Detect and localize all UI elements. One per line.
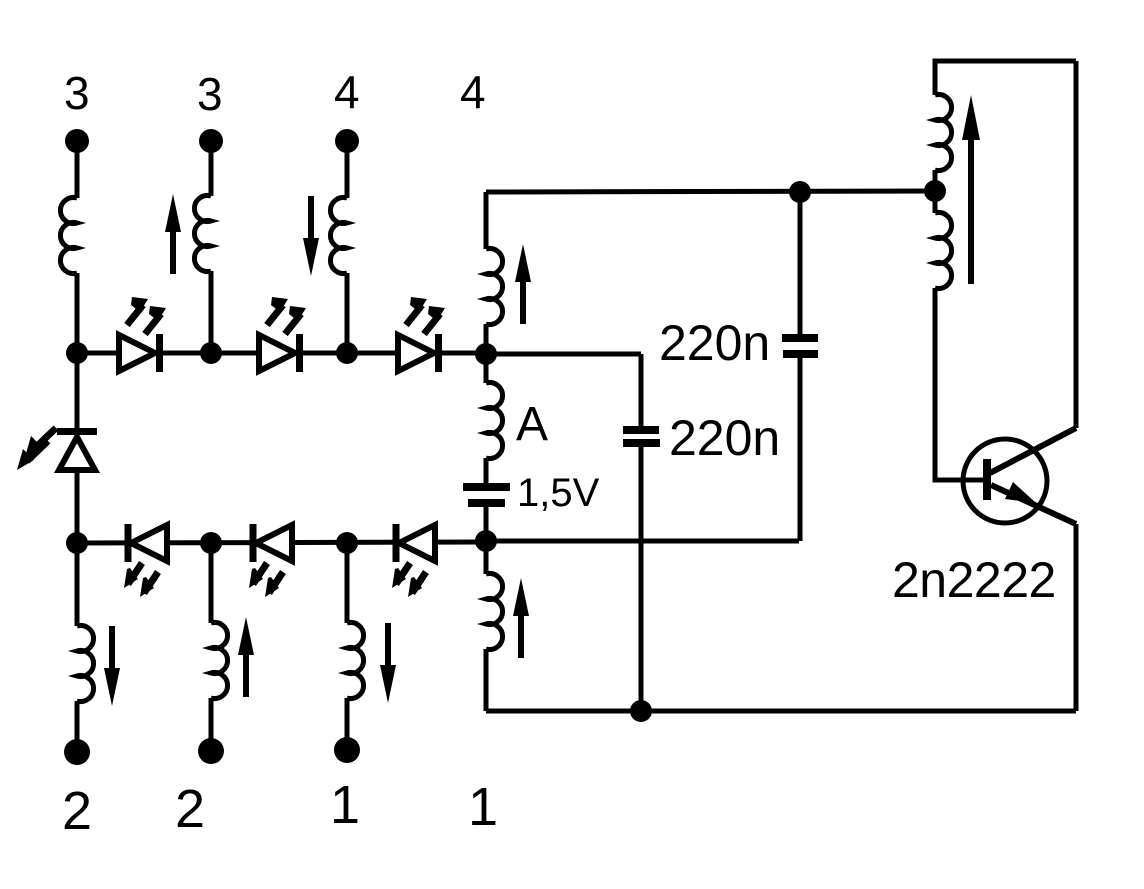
capacitor C1 220n plate bottom [783, 350, 818, 358]
lower LED row wire [77, 542, 486, 543]
junction dot transformer tap [924, 180, 946, 202]
wire col1 node to vertical LED [75, 353, 80, 429]
svg-text:A: A [516, 398, 548, 451]
LED D5 lower row [250, 524, 293, 562]
svg-text:3: 3 [197, 68, 223, 120]
arrow up beside col4 bottom coil [513, 578, 529, 658]
node dot upper col4 (node A feed) [475, 343, 497, 365]
svg-text:2: 2 [62, 781, 92, 841]
arrow up transformer [968, 140, 974, 284]
inductor col4 top [486, 249, 503, 325]
cap1 branch wire upper [798, 192, 803, 335]
wire col4 coil to node [484, 324, 489, 354]
inductor col2 bottom [211, 623, 228, 699]
transformer top-left corner wire [935, 61, 1076, 95]
svg-text:3: 3 [64, 67, 90, 119]
svg-text:1: 1 [468, 777, 498, 837]
node dot lower col4 (battery node) [475, 530, 497, 552]
svg-text:1: 1 [330, 775, 360, 835]
wire col1 lower node to coil [75, 543, 80, 626]
transformer upper winding [935, 95, 952, 171]
battery 1,5V plate short [468, 499, 505, 507]
node dot lower col3 [336, 532, 358, 554]
arrowhead transformer [962, 95, 980, 140]
svg-text:2n2222: 2n2222 [892, 552, 1056, 608]
svg-text:2: 2 [175, 779, 205, 839]
node dot upper col2 [200, 342, 222, 364]
transistor base bar [983, 459, 991, 500]
arrow up beside col2 coil [165, 194, 181, 274]
terminal dot 2 col1 [64, 739, 90, 765]
transistor emitter arrowhead [1005, 482, 1036, 503]
wire col2 coil to terminal [209, 698, 214, 751]
emitter wire down [1074, 524, 1079, 711]
wire col1 coil to terminal [75, 701, 80, 752]
wire col4 top corner down to coil [484, 192, 489, 249]
terminal dot 2 col2 [198, 738, 224, 764]
LED D6 lower row [393, 524, 436, 562]
wire node to cap2 branch [486, 352, 641, 357]
inductor col2 top [194, 196, 211, 272]
wire col1 coil to node [75, 273, 80, 353]
arrow down beside col3 coil [303, 196, 319, 276]
node dot upper col3 [336, 342, 358, 364]
cap2 branch wire lower [639, 447, 644, 711]
transformer left top segment [933, 170, 938, 191]
junction dot top feed [789, 181, 811, 203]
emission arrows D3 [406, 297, 427, 325]
inductor A [486, 383, 503, 459]
capacitor C1 220n plate top [782, 334, 818, 342]
LED D3 upper row [398, 334, 442, 372]
transformer lower winding lead [933, 191, 938, 213]
wire transformer to base [935, 288, 983, 480]
emission arrows D5 [249, 563, 267, 588]
inductor col3 bottom [347, 623, 364, 699]
svg-text:220n: 220n [669, 410, 780, 466]
wire col3 coil to node [345, 273, 350, 353]
transistor emitter line [991, 485, 1076, 524]
wire col2 coil to node [209, 271, 214, 353]
node dot lower col1 [66, 532, 88, 554]
arrow down beside col3 bottom coil [380, 623, 396, 703]
inductor col1 bottom [77, 626, 94, 702]
terminal dot 4 col3 [335, 129, 359, 153]
wire col3 coil to terminal [345, 698, 350, 750]
svg-text:4: 4 [334, 66, 360, 118]
bottom rail [486, 709, 1076, 714]
inductor col4 bottom [486, 574, 503, 650]
upper LED row wire [77, 351, 486, 356]
wire col2 terminal to coil [209, 141, 214, 196]
svg-text:4: 4 [460, 66, 486, 118]
cap2 branch wire upper [639, 354, 644, 427]
wire lower node to cap1 branch corner [486, 539, 799, 544]
LED D4 lower row [125, 524, 168, 562]
svg-text:1,5V: 1,5V [517, 471, 600, 515]
arrow up beside col4 top coil [515, 244, 531, 324]
junction dot bottom rail [630, 700, 652, 722]
capacitor C2 220n plate bottom [623, 439, 660, 447]
wire col4 lower node to coil [484, 541, 489, 574]
wire coil A to battery [484, 458, 489, 485]
transistor Q1 circle [963, 439, 1047, 523]
terminal dot 3 col2 [199, 129, 223, 153]
arrow down beside col1 bottom coil [104, 626, 120, 706]
LED D2 upper row [259, 334, 303, 372]
wire col1 terminal to coil [75, 141, 80, 198]
node dot lower col2 [200, 532, 222, 554]
emission arrows D2 [267, 297, 288, 325]
transformer right wire down to collector [1074, 61, 1079, 428]
emission arrows D4 [124, 563, 142, 588]
wire col3 lower node to coil [345, 543, 350, 623]
wire col2 lower node to coil [209, 543, 214, 623]
emission arrows D6 [392, 563, 410, 588]
terminal dot 3 col1 [65, 129, 89, 153]
node dot upper col1 [66, 342, 88, 364]
emission arrows D1 [127, 297, 148, 325]
LED D1 upper row [119, 334, 163, 372]
transformer lower winding [935, 213, 952, 289]
top feed wire [486, 191, 935, 192]
capacitor C2 220n plate top [623, 426, 659, 434]
arrow up beside col2 bottom coil [238, 617, 254, 697]
cap1 branch wire lower [798, 358, 803, 541]
svg-text:220n: 220n [659, 315, 770, 371]
inductor col3 top [330, 198, 347, 274]
battery 1,5V plate long [463, 483, 510, 491]
wire D7 to lower node [75, 470, 80, 543]
wire col4 coil to bottom rail [484, 649, 489, 711]
LED D7 triangle [59, 437, 95, 470]
wire col3 terminal to coil [345, 141, 350, 198]
terminal dot 1 col3 [334, 737, 360, 763]
wire node down to coil A [484, 354, 489, 383]
LED D7 vertical col1: cathode bar [57, 428, 97, 435]
transistor collector line [990, 428, 1076, 473]
wire battery to lower node [484, 507, 489, 541]
inductor col1 top [60, 198, 77, 274]
emission arrows D7 [25, 428, 56, 457]
